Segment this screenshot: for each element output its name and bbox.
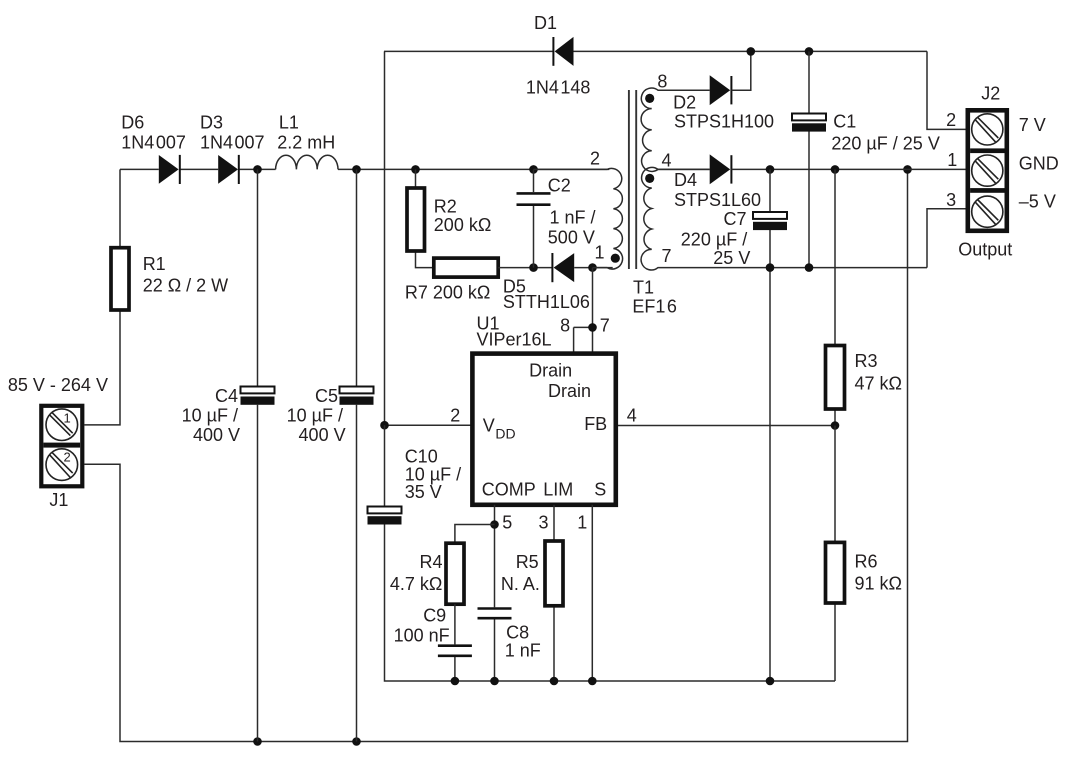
- svg-text:STPS1L60: STPS1L60: [674, 190, 761, 210]
- svg-text:C8: C8: [506, 623, 529, 643]
- svg-text:D6: D6: [121, 113, 144, 133]
- connector J1: [41, 406, 82, 487]
- capacitor C1: [792, 114, 826, 132]
- svg-text:VIPer16L: VIPer16L: [477, 330, 552, 350]
- svg-text:2.2 mH: 2.2 mH: [277, 133, 335, 153]
- svg-text:200 kΩ: 200 kΩ: [434, 215, 492, 235]
- svg-text:1: 1: [577, 513, 587, 533]
- wire minus5 rail corner to J2 pin3: [927, 209, 966, 268]
- label C5: [287, 386, 346, 445]
- svg-text:1: 1: [595, 243, 605, 263]
- svg-text:N. A.: N. A.: [501, 574, 540, 594]
- svg-text:4.7 kΩ: 4.7 kΩ: [390, 574, 442, 594]
- wire C2 branch: [533, 169, 535, 267]
- svg-text:25 V: 25 V: [713, 248, 750, 268]
- svg-text:D1: D1: [534, 13, 557, 33]
- svg-text:91 kΩ: 91 kΩ: [855, 574, 902, 594]
- wire COMP pin drop: [494, 505, 496, 681]
- svg-text:LIM: LIM: [543, 480, 573, 500]
- svg-text:D4: D4: [674, 170, 697, 190]
- capacitor C5: [340, 387, 374, 405]
- node FB divider junction: [831, 421, 840, 430]
- capacitor C10: [368, 507, 402, 525]
- inductor L1: [276, 155, 338, 169]
- svg-text:L1: L1: [279, 113, 299, 133]
- svg-text:1 nF: 1 nF: [505, 641, 541, 661]
- resistor R7: [434, 258, 498, 277]
- svg-text:C5: C5: [315, 386, 338, 406]
- svg-text:COMP: COMP: [482, 480, 536, 500]
- svg-text:22 Ω / 2 W: 22 Ω / 2 W: [143, 276, 228, 296]
- svg-text:C10: C10: [405, 447, 438, 467]
- svg-text:STTH1L06: STTH1L06: [503, 292, 590, 312]
- svg-text:1N4 007: 1N4 007: [121, 133, 186, 153]
- wire R7 to D5: [498, 267, 552, 269]
- svg-text:400 V: 400 V: [193, 425, 240, 445]
- wire drain drop to U1 pins 8 7: [574, 268, 593, 354]
- svg-text:10 µF /: 10 µF /: [287, 406, 343, 426]
- resistor R6: [826, 542, 845, 603]
- resistor R5: [545, 541, 563, 606]
- diode D5: [552, 253, 574, 282]
- node VDD junction: [380, 421, 389, 430]
- node COMP rail junction: [490, 677, 499, 686]
- svg-text:2: 2: [450, 406, 460, 426]
- wire LIM pin drop: [553, 505, 555, 681]
- svg-text:100 nF: 100 nF: [394, 626, 450, 646]
- svg-text:7: 7: [600, 316, 610, 336]
- node D2 top rail junction: [747, 47, 756, 56]
- capacitor C2: [517, 193, 551, 204]
- wire top rail from node at x384 to J2 pin2 corner: [384, 51, 966, 129]
- svg-text:R4: R4: [420, 552, 443, 572]
- diode D6: [159, 155, 180, 184]
- transformer T1 core: [629, 90, 636, 269]
- transformer T1 secondary winding 8-4: [641, 88, 710, 171]
- wire FB line: [616, 425, 835, 427]
- node C1 top rail junction: [805, 47, 814, 56]
- connector J2: [968, 110, 1007, 231]
- svg-text:–5 V: –5 V: [1019, 192, 1056, 212]
- label L1: [277, 113, 335, 153]
- wire main input rail y169: [120, 168, 609, 170]
- node R2 tap: [411, 165, 420, 174]
- node secondary top phase dot: [645, 94, 654, 103]
- wire C5 branch: [356, 169, 358, 741]
- capacitor C8: [478, 609, 512, 619]
- svg-text:STPS1H100: STPS1H100: [674, 112, 774, 132]
- node S rail junction: [588, 677, 597, 686]
- svg-text:D2: D2: [673, 93, 696, 113]
- node C9 rail junction: [451, 677, 460, 686]
- capacitor C7: [753, 212, 787, 230]
- wire C1 branch: [808, 51, 810, 267]
- wire R2 branch: [416, 169, 434, 267]
- svg-text:1N4 148: 1N4 148: [526, 78, 591, 98]
- label D3: [200, 113, 265, 153]
- svg-text:8: 8: [560, 316, 570, 336]
- resistor R3: [826, 346, 845, 410]
- node C7 rail junction: [766, 263, 775, 272]
- svg-text:4: 4: [627, 406, 637, 426]
- node primary phase dot: [611, 254, 620, 263]
- node R3 top junction: [831, 165, 840, 174]
- svg-text:1N4 007: 1N4 007: [200, 133, 265, 153]
- svg-text:1: 1: [947, 150, 957, 170]
- capacitor C9: [438, 646, 472, 656]
- resistor R4: [446, 543, 464, 604]
- resistor R1: [111, 248, 129, 310]
- wire S pin drop: [591, 505, 593, 681]
- wire R6 branch: [834, 426, 836, 682]
- wire C7 branch down to source rail: [769, 169, 771, 681]
- node transformer pin1 junction: [588, 263, 597, 272]
- svg-text:R1: R1: [143, 254, 166, 274]
- wire C4 branch: [257, 169, 259, 741]
- svg-text:220 µF / 25 V: 220 µF / 25 V: [831, 134, 939, 154]
- node bottom rail C5: [352, 737, 361, 746]
- svg-text:C7: C7: [724, 209, 747, 229]
- svg-text:R2: R2: [434, 197, 457, 217]
- label C4: [182, 386, 240, 445]
- node bottom rail C4: [253, 737, 262, 746]
- op-amp U1 VIPer16L body: [472, 354, 615, 505]
- svg-text:4: 4: [662, 151, 672, 171]
- label R2: [434, 197, 492, 236]
- svg-text:Output: Output: [958, 240, 1012, 260]
- svg-text:C9: C9: [423, 606, 446, 626]
- wire D2 cathode up to top rail: [731, 51, 750, 90]
- svg-text:2: 2: [946, 110, 956, 130]
- svg-text:DD: DD: [495, 426, 515, 442]
- svg-text:8: 8: [657, 72, 667, 92]
- svg-text:EF1 6: EF1 6: [632, 297, 677, 317]
- svg-text:3: 3: [946, 190, 956, 210]
- label C10: [405, 447, 461, 503]
- resistor R2: [407, 188, 425, 251]
- svg-text:3: 3: [539, 513, 549, 533]
- svg-text:Drain: Drain: [529, 361, 572, 381]
- node C2 bottom junction: [529, 263, 538, 272]
- svg-text:1 nF /: 1 nF /: [550, 208, 596, 228]
- svg-text:1: 1: [64, 411, 71, 426]
- node C2 tap: [529, 165, 538, 174]
- label C8: [505, 623, 541, 661]
- svg-text:C2: C2: [548, 176, 571, 196]
- svg-text:J2: J2: [981, 84, 1000, 104]
- label D4: [674, 170, 761, 210]
- svg-text:220 µF /: 220 µF /: [681, 230, 747, 250]
- node secondary bottom phase dot: [645, 174, 654, 183]
- wire from C10 down to source rail: [385, 525, 836, 682]
- svg-text:V: V: [483, 416, 495, 436]
- diode D2: [710, 75, 732, 105]
- label R3: [855, 351, 902, 394]
- diode D4: [710, 154, 732, 184]
- node L1 right junction: [352, 165, 361, 174]
- label R1: [143, 254, 228, 296]
- wire left vertical bus x384 from top rail down to VDD: [384, 51, 386, 425]
- wire R3 branch: [834, 169, 836, 425]
- node C1 bottom junction: [805, 263, 814, 272]
- svg-text:T1: T1: [633, 278, 654, 298]
- node R5 rail junction: [550, 677, 559, 686]
- svg-text:2: 2: [64, 450, 71, 465]
- svg-text:R7 200 kΩ: R7 200 kΩ: [405, 283, 491, 303]
- svg-text:C1: C1: [833, 112, 856, 132]
- label D6: [121, 113, 186, 153]
- svg-text:GND: GND: [1019, 154, 1059, 174]
- wire from VDD node down to C10: [384, 425, 386, 506]
- svg-text:S: S: [594, 480, 606, 500]
- node COMP branch junction: [490, 520, 499, 529]
- label R4: [390, 552, 443, 594]
- svg-text:Drain: Drain: [548, 381, 591, 401]
- svg-text:FB: FB: [584, 414, 607, 434]
- wire C9 to source rail: [454, 657, 456, 681]
- svg-text:10 µF /: 10 µF /: [182, 406, 238, 426]
- label D2: [673, 93, 774, 132]
- wire left input drop x120: [84, 169, 120, 425]
- label C2: [548, 176, 596, 248]
- svg-text:2: 2: [590, 149, 600, 169]
- node C7 source rail junction: [766, 677, 775, 686]
- wire D5 anode to drain node: [574, 267, 613, 269]
- node drain pins junction: [588, 323, 597, 332]
- node C7 top junction: [766, 165, 775, 174]
- wire GND rail to J2 pin1: [731, 168, 965, 170]
- node D3-L1 junction: [253, 165, 262, 174]
- label U1: [477, 314, 552, 350]
- node GND rail right: [903, 165, 912, 174]
- svg-text:R5: R5: [516, 552, 539, 572]
- svg-text:5: 5: [502, 513, 512, 533]
- label R5: [501, 552, 540, 594]
- svg-text:400 V: 400 V: [299, 425, 346, 445]
- label T1: [632, 278, 677, 317]
- label C1: [831, 112, 939, 154]
- svg-text:7 V: 7 V: [1019, 115, 1046, 135]
- label R6: [855, 552, 902, 594]
- svg-text:R3: R3: [855, 351, 878, 371]
- svg-text:35 V: 35 V: [405, 482, 442, 502]
- svg-text:J1: J1: [49, 490, 68, 510]
- label C7: [681, 209, 751, 268]
- svg-text:C4: C4: [215, 386, 238, 406]
- label C9: [394, 606, 450, 646]
- wire R4 to C9: [454, 604, 456, 644]
- svg-text:500 V: 500 V: [548, 228, 595, 248]
- wire COMP to R4 branch: [455, 525, 495, 544]
- transformer T1 secondary winding 4-7: [641, 167, 927, 270]
- svg-text:47 kΩ: 47 kΩ: [855, 374, 902, 394]
- diode D3: [218, 155, 239, 184]
- svg-text:85 V - 264 V: 85 V - 264 V: [8, 375, 108, 395]
- wire J1 pin2 drop to bottom rail: [84, 169, 907, 741]
- transformer T1 primary winding: [534, 168, 623, 269]
- svg-text:R6: R6: [855, 552, 878, 572]
- label VDD: [483, 416, 516, 442]
- svg-text:7: 7: [662, 246, 672, 266]
- label D5: [503, 277, 590, 313]
- capacitor C4: [241, 387, 275, 405]
- wire VDD feed: [385, 424, 473, 426]
- diode D1: [553, 37, 573, 66]
- svg-text:D3: D3: [200, 113, 223, 133]
